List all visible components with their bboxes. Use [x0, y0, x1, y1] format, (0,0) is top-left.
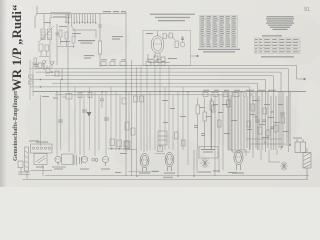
- labels under bottom tubes: [36, 142, 127, 170]
- capacitor C5 and socket circle (in box): [180, 36, 185, 47]
- parts cluster bottom of box: [148, 54, 170, 63]
- diode D1 (triangle): [87, 112, 92, 117]
- resistor R4 (in box): [163, 33, 178, 48]
- corner verticals near pot: [194, 95, 231, 176]
- capacitor C8 hanging under rail: [100, 92, 144, 108]
- tube V3 (output pentode): [234, 151, 243, 171]
- coupling caps on feeders (left): [58, 110, 109, 122]
- tube T1 (rectifier): [52, 156, 66, 167]
- tube T2: [82, 156, 88, 162]
- component row on rail (right section): [203, 93, 254, 97]
- wire: top antenna bus: [37, 13, 126, 15]
- switch wiring: [71, 26, 96, 38]
- supply bus lines with right-hand corner drops: [36, 66, 305, 153]
- IF coil box between V1 and V2: [158, 131, 167, 145]
- trimmer block TL (small boxes below coil): [39, 44, 49, 57]
- small parts inside right bundle: [246, 104, 286, 144]
- tube V2 (audio pentode): [165, 153, 174, 172]
- coil L2 (antenna coil with core): [38, 26, 54, 43]
- extra parts in right bundle: [247, 111, 285, 143]
- junction dots under rail: [101, 91, 127, 93]
- bus B8 (main dark rail): [33, 91, 306, 93]
- lamp/jewel small circle: [92, 158, 98, 161]
- junction dots near TR1: [281, 144, 291, 148]
- antenna input lead: [36, 6, 38, 14]
- caps C7 pair: [74, 155, 82, 165]
- vertical feeder bundle mid-right: [229, 92, 290, 152]
- bus B4: [45, 76, 274, 150]
- note text block (top right): [266, 16, 294, 30]
- bottom rail W1: [45, 175, 309, 177]
- bus B6: [52, 83, 258, 150]
- ballast/terminal block: [31, 144, 53, 153]
- scan smudges: [25, 15, 320, 175]
- bus B5: [36, 80, 266, 153]
- bus B3: [36, 72, 281, 150]
- node B1 terminal: [304, 78, 306, 80]
- small parts on left bus band: [38, 63, 62, 80]
- tone pot P2 (scribble): [280, 162, 288, 171]
- bus B2: [36, 69, 289, 152]
- bus B1: [100, 66, 304, 80]
- paper background: [0, 0, 320, 187]
- component row small boxes below rail left: [62, 92, 92, 99]
- wire: antenna branch down-left: [35, 14, 37, 28]
- mains switch block (bottom far left): [18, 147, 30, 179]
- svg-text:Gemeinschafts-Empfänger: Gemeinschafts-Empfänger: [12, 90, 19, 161]
- core adjust arrow: [38, 26, 54, 43]
- band switch S1 (contact comb): [66, 14, 96, 27]
- resistor R1 (on vertical x=100): [98, 14, 102, 67]
- table T2 cell text: [255, 39, 299, 52]
- svg-text:WR 1/P „Rudi“: WR 1/P „Rudi“: [10, 4, 24, 91]
- wire: box output to right: [191, 55, 199, 57]
- tube V4 (inside box): [151, 31, 164, 58]
- bottom rail W2: [22, 178, 308, 180]
- tuning capacitor C2 cluster: [41, 60, 55, 68]
- vertical feeders from buses to bottom stage: [41, 66, 189, 176]
- wire: verticals x=127,x=133 from top to bus: [126, 12, 132, 176]
- shield can between T1 and T2: [62, 154, 74, 164]
- table T1 cell text: [200, 16, 236, 47]
- tiny labels on rails: [115, 171, 237, 178]
- loudspeaker LS1: [303, 148, 311, 179]
- tube data table T2 (right): [255, 38, 301, 54]
- pot mounting frame: [199, 147, 218, 159]
- wire: long vertical from switch to bus band: [44, 14, 68, 92]
- resistor R2,R3 (below switch): [56, 30, 76, 48]
- detector stage box U1: [143, 30, 191, 65]
- parts cluster left of V1: [108, 139, 130, 149]
- small parts cluster x125-137 y120-150: [123, 122, 137, 150]
- switch label: [78, 40, 95, 44]
- parts table T1 (coil winding table): [200, 16, 238, 48]
- bus B7: [36, 87, 250, 150]
- component row R10..R12 on bus B1 (left of box): [101, 61, 165, 65]
- tiny label row above resistors: [44, 11, 126, 59]
- table T2 heading: [262, 35, 282, 36]
- table T2 caption: [261, 56, 294, 57]
- junction dots on rails: [56, 91, 243, 177]
- svg-text:91: 91: [304, 7, 310, 13]
- output transformer TR1: [295, 139, 306, 153]
- tube V1 (RF pentode): [140, 154, 149, 172]
- left page edge shading: [0, 0, 7, 187]
- wire: bundle turn-ins to output stage: [229, 150, 280, 162]
- coupling parts between V1 and V2: [128, 146, 165, 172]
- capacitor C1 cluster mid-left: [34, 58, 39, 70]
- switch contact blobs: [66, 22, 97, 24]
- parts on pre-bundle verticals: [175, 100, 231, 146]
- heading text above detector box (3 lines): [150, 14, 195, 22]
- volume pot P1 (starburst): [200, 158, 210, 168]
- voltage selector box: [31, 154, 53, 176]
- tube T3: [102, 156, 108, 166]
- left bus terminations: [29, 60, 37, 100]
- bus B9 (partial): [55, 94, 228, 96]
- table T1 caption: [198, 49, 240, 53]
- label box L1 (antenna coupling label): [51, 12, 70, 17]
- labels near mid verticals: [162, 100, 237, 134]
- mid-stage resistor group (x 195-215): [194, 98, 214, 150]
